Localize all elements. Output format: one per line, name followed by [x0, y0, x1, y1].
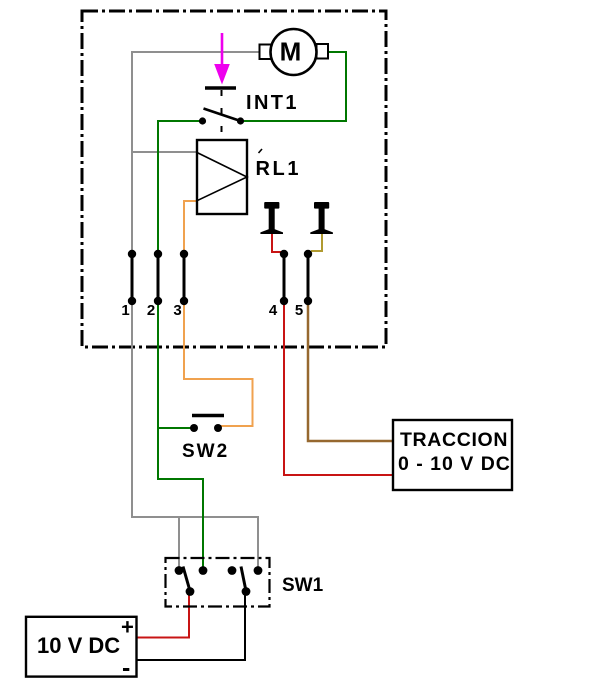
svg-text:0 - 10 V DC: 0 - 10 V DC	[398, 453, 511, 475]
svg-text:TRACCION: TRACCION	[400, 429, 508, 451]
svg-text:5: 5	[295, 302, 303, 319]
svg-text:1: 1	[121, 302, 129, 319]
svg-text:3: 3	[173, 302, 181, 319]
svg-text:-: -	[122, 654, 130, 682]
svg-text:SW2: SW2	[182, 441, 229, 462]
svg-text:RL1: RL1	[256, 158, 302, 180]
svg-text:SW1: SW1	[282, 575, 324, 596]
svg-text:INT1: INT1	[246, 92, 299, 114]
svg-text:+: +	[121, 615, 134, 640]
svg-text:2: 2	[147, 302, 155, 319]
svg-text:10 V DC: 10 V DC	[37, 633, 120, 658]
svg-text:4: 4	[269, 302, 278, 319]
svg-text:M: M	[280, 37, 302, 67]
